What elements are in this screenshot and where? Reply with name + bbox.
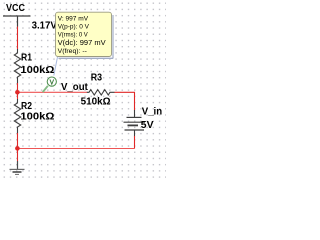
svg-text:5V: 5V [141, 120, 154, 131]
svg-text:3.17V: 3.17V [32, 20, 58, 31]
wire bottom rail [17, 148, 135, 150]
junction node ground rail [15, 146, 20, 151]
svg-text:V: 997 mV: V: 997 mV [58, 16, 89, 23]
svg-text:V(p-p): 0 V: V(p-p): 0 V [58, 24, 90, 31]
wire battery bottom to rail [134, 136, 136, 149]
wire node V_out horizontal to R3 [17, 91, 87, 93]
svg-text:510kΩ: 510kΩ [81, 97, 111, 108]
svg-text:V_in: V_in [142, 106, 162, 117]
probe PR1 magnifier [43, 77, 57, 92]
svg-text:VCC: VCC [6, 3, 25, 14]
resistor R3 [87, 90, 115, 95]
svg-text:V(freq): --: V(freq): -- [58, 48, 87, 55]
wire R1 to node V_out [17, 83, 19, 100]
probe tooltip box [56, 12, 114, 58]
svg-text:R3: R3 [91, 73, 103, 84]
svg-text:V(dc): 997 mV: V(dc): 997 mV [58, 38, 106, 47]
wire R2 to ground node [17, 133, 19, 161]
svg-text:V_out: V_out [61, 82, 88, 93]
junction node V_out [15, 90, 20, 95]
ground [10, 161, 25, 174]
svg-text:100kΩ: 100kΩ [20, 65, 54, 76]
resistor R1 [14, 49, 20, 83]
wire VCC to R1 [17, 27, 19, 50]
power symbol VCC [3, 16, 31, 27]
wire R3 to battery top [115, 92, 135, 110]
battery V_in [124, 110, 146, 137]
resistor R2 [14, 99, 20, 133]
svg-text:100kΩ: 100kΩ [20, 111, 54, 122]
svg-text:R1: R1 [21, 53, 32, 64]
probe connector line to tooltip [54, 57, 58, 76]
